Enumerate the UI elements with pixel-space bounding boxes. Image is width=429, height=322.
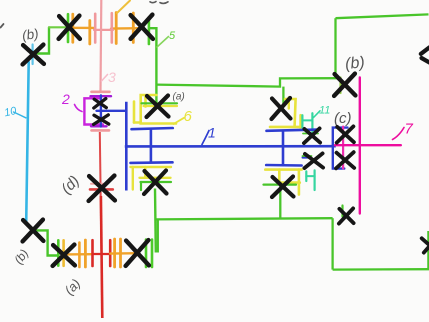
shaft red lower thicker [101,196,102,318]
svg-text:7: 7 [405,121,414,138]
frame green right edge vertical [427,231,429,269]
planetary right vertical blue [282,130,285,165]
shaft blue vertical in clutch 2 [100,96,102,127]
green tick unit (a) [142,102,178,104]
wire blue from clutch 2 to planetary [97,110,127,112]
svg-text:2: 2 [61,91,70,107]
shaft red vertical [100,132,103,318]
coupling 11 teal crossbar top [302,119,312,121]
shaft 5 orange horizontal left [68,27,94,30]
label 1 pointer [202,131,209,145]
bracket yellow unit (a) bottom: inner step [140,167,171,178]
green tick through mid X bottom [303,155,312,157]
bearing X top-right shaft5 [131,15,153,39]
wire green below unit right [279,186,281,219]
svg-text:3: 3 [108,69,116,85]
svg-text:(b): (b) [344,54,365,73]
bearing X magenta bottom [339,208,354,223]
wire green vertical to X (b) right frame [334,18,336,78]
coupling 11 teal crossbar bottom [306,175,314,177]
label 7 pointer [393,128,405,140]
bracket yellow unit (a) bottom: top horizontal [131,166,172,168]
clutch 2 salmon flange top [92,91,110,94]
unit right top: yellow bracket top [285,99,296,126]
gear bar green right [148,17,151,44]
bearing X unit right top [272,98,291,119]
bearing X right edge top partial [421,47,429,62]
clutch 2 violet bar bottom [91,125,107,127]
green tick above bottom magenta X [341,206,343,217]
unit right top: yellow bracket bottom horizontal [270,126,302,129]
frame green vertical right [331,218,333,269]
gear bar orange 4 [132,13,135,43]
shaft 7 magenta horizontal [335,144,401,146]
gear bar orange 3 [115,13,118,44]
bracket yellow unit (a) inner vertical [144,96,147,107]
wire green horizontal into gear 5 left [49,26,68,28]
label 10 pointer [14,112,26,118]
svg-text:(b): (b) [21,26,39,43]
gear bar pink at (c) [342,127,344,169]
coupling 11 teal H bottom right bar [314,170,316,190]
label 3 pointer [102,75,108,82]
gear bar orange 2 [88,21,91,45]
planetary right top horizontal blue [267,130,319,131]
label 2 tail [75,105,83,112]
clutch 2 salmon flange bottom [92,129,110,132]
salmon dash above X d [91,183,104,185]
bottom gear orange horizontal right [110,252,136,255]
wire green frame top horizontal [336,14,429,18]
label 11 pointer [314,111,321,118]
bracket yellow unit (a) bottom: left vertical [132,167,134,190]
planetary left top horizontal [132,128,173,129]
planetary right bottom horizontal blue [266,164,301,167]
bracket yellow unit (a) top: corner [134,121,141,124]
frame green bottom horizontal right [333,268,429,271]
bracket yellow unit (a) top: vertical far left [133,102,136,123]
bearing X (b) bottom-left [23,220,44,242]
bottom gear bar green left [57,240,60,265]
bearing X bottom gear right [126,240,149,266]
wire green branch horizontal to right units [156,78,341,86]
red tick at X d [90,188,113,191]
svg-text:5: 5 [169,30,176,42]
unit right bottom: yellow step [279,170,300,183]
bracket yellow unit (a) top main [141,95,176,124]
link 10 cyan short bar [31,45,33,65]
bottom gear bar orange a [78,243,81,268]
svg-text:(c): (c) [334,110,352,127]
bearing X right edge bottom partial [422,238,429,252]
coupling red crossbar [93,253,111,255]
green corner unit (a) bottom left [140,182,142,190]
bearing X (c) bottom [336,152,354,168]
svg-text:1: 1 [208,125,216,141]
coupling 3 salmon H right bar [111,13,114,42]
bottom gear bar orange c [113,239,116,267]
frame green vertical below unit (a) [154,189,157,253]
wire green vertical to unit (a) right [282,87,284,104]
coupling 11 teal H top left bar [301,115,303,127]
green tick through mid X top [303,133,318,135]
label 5 pointer [157,37,169,48]
label 6 pointer [174,118,185,124]
wire green elbow top-left to shaft 5 [36,28,49,54]
clutch 2 magenta bracket [84,98,103,124]
bottom gear bar green right b [151,240,154,268]
bottom gear bar green right a [145,240,148,268]
coupling 11 teal H bottom left bar [305,171,307,181]
svg-text:(a): (a) [173,92,185,103]
gear bar green left [67,14,70,42]
planetary left blue vertical [125,102,128,191]
stray mark left edge [1,24,4,28]
shaft 1 blue main horizontal [125,145,336,148]
bearing X clutch2 bottom [94,115,109,125]
bearing X bottom gear left [53,245,75,266]
unit right bottom: green tick [264,184,297,186]
bottom gear bar yellow-orange under X [62,240,65,265]
coupling 3 salmon crossbar [94,29,113,31]
coupling red H right bar [109,240,112,266]
unit right bottom: yellow top horizontal [265,168,301,171]
bracket (c) blue [333,128,348,169]
planetary left bottom horizontal [131,161,173,164]
wire green corner above bottom gear [157,219,159,253]
bottom gear: green wire elbow left [37,230,57,255]
bearing X (b) right [334,74,355,96]
bearing X unit (a) top [147,96,169,118]
bearing X unit (a) bottom [144,171,167,195]
svg-text:6: 6 [184,108,193,125]
bearing X (c) top [337,126,354,142]
coupling 3 salmon H left bar [94,14,97,43]
unit right top: yellow vertical outer [299,115,302,127]
link 10 cyan vertical [26,62,29,222]
bearing X top-left shaft5 [59,16,80,39]
bearing X mid shaft bottom [304,153,323,168]
frame green bottom horizontal mid [156,218,333,219]
wire green corner top right of shaft 5 [149,28,156,103]
unit right top: yellow short bar left [288,98,290,109]
bearing X clutch2 top [94,99,107,108]
bearing X mid shaft top [304,128,320,143]
clutch 2 violet bar top [91,95,112,97]
link magenta long vertical [359,78,361,214]
shaft 5 orange horizontal right [111,27,141,30]
bottom gear bar orange d [119,239,122,267]
gear bar orange [71,14,74,42]
blue tick below shaft right [303,156,311,158]
unit right bottom: yellow outer vertical [298,170,301,195]
bottom gear bar orange b [84,240,87,267]
label 5 top edge partial orange [117,1,130,14]
svg-text:11: 11 [319,105,330,117]
bearing X unit right bottom [272,177,294,198]
coupling 11 teal H top right bar [311,113,313,136]
bottom gear orange horizontal left [64,253,92,256]
bearing X (b) left [23,45,44,65]
planetary left mid vertical [150,129,153,163]
bearing X (d) red shaft [89,176,115,201]
green tick unit (a) bottom [141,181,172,183]
shaft 3 salmon vertical [99,0,102,92]
lime tick at X b right [339,78,341,94]
bracket yellow unit (a) lower lip [144,105,178,107]
coupling red H left bar [91,240,94,266]
label (a) top edge partial gray [150,2,168,4]
